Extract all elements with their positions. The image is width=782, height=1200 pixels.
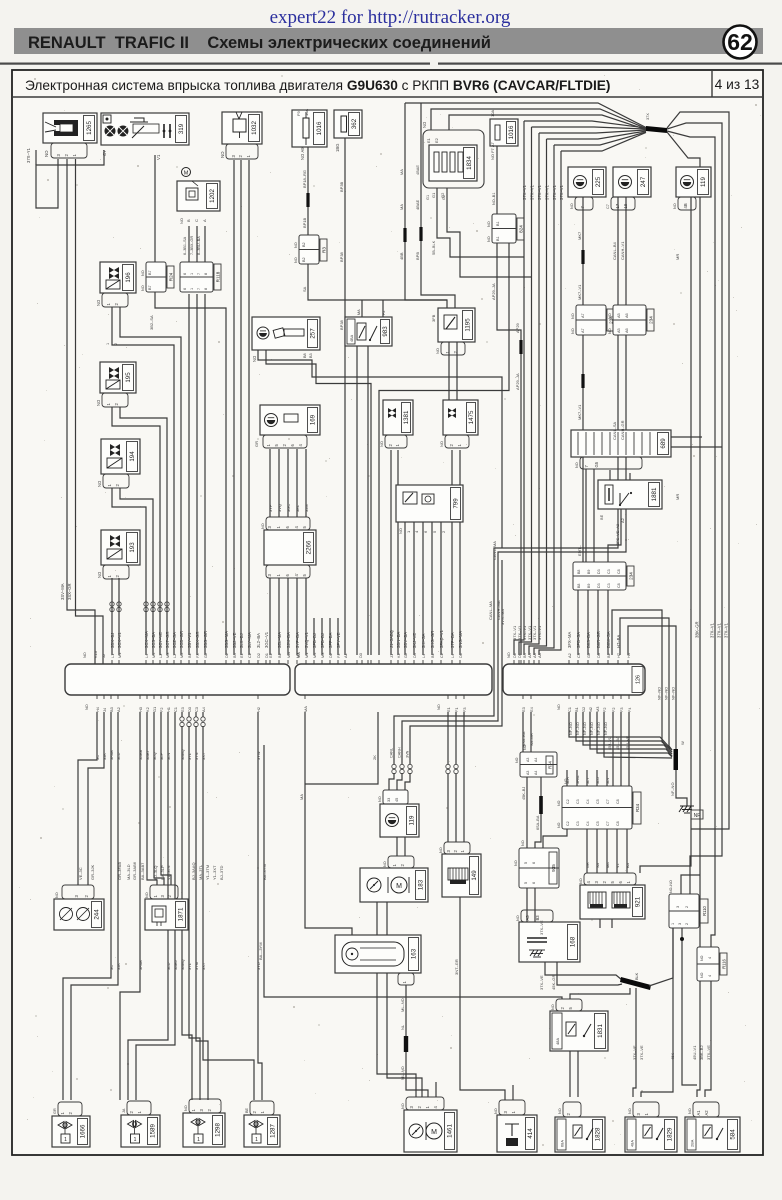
svg-text:6: 6 bbox=[532, 882, 536, 884]
svg-text:6SA–BA: 6SA–BA bbox=[536, 815, 540, 830]
svg-text:AP29–JA: AP29–JA bbox=[515, 373, 520, 390]
svg-text:E1: E1 bbox=[446, 707, 451, 712]
svg-text:NF–NO: NF–NO bbox=[569, 722, 573, 735]
wire left edge 37X-Y1 label stub bbox=[35, 150, 37, 165]
component 163 fuel pump bbox=[335, 935, 421, 973]
svg-text:M3: M3 bbox=[320, 653, 325, 658]
svg-text:4 из 13: 4 из 13 bbox=[715, 77, 760, 92]
svg-text:NF–NO: NF–NO bbox=[657, 687, 662, 700]
svg-text:1834: 1834 bbox=[466, 156, 473, 170]
svg-text:A3: A3 bbox=[537, 653, 542, 658]
svg-text:R34: R34 bbox=[548, 760, 553, 768]
svg-text:K13: K13 bbox=[93, 651, 98, 658]
svg-text:H4: H4 bbox=[626, 652, 631, 658]
svg-text:M: M bbox=[396, 883, 402, 890]
svg-text:3BG–MA: 3BG–MA bbox=[224, 631, 229, 648]
svg-text:B2: B2 bbox=[606, 653, 611, 658]
svg-text:NO: NO bbox=[96, 299, 101, 306]
svg-text:NO: NO bbox=[44, 150, 49, 157]
svg-text:NL: NL bbox=[400, 1024, 405, 1030]
component 1871 bbox=[145, 899, 188, 930]
svg-text:3CY–VE: 3CY–VE bbox=[158, 632, 163, 648]
svg-text:BP18–RG: BP18–RG bbox=[302, 170, 307, 188]
svg-text:C7: C7 bbox=[606, 204, 610, 209]
svg-text:BLK: BLK bbox=[635, 972, 639, 980]
svg-text:414: 414 bbox=[527, 1128, 534, 1139]
svg-text:D2: D2 bbox=[256, 653, 261, 658]
wire 196 pin2 jog to ECU bbox=[120, 307, 181, 655]
svg-text:1: 1 bbox=[106, 343, 110, 345]
splice MK7 bbox=[581, 250, 584, 264]
svg-text:3TM: 3TM bbox=[194, 962, 199, 970]
svg-text:EMT–: EMT– bbox=[577, 545, 582, 556]
component 1032 sensor bbox=[222, 112, 262, 144]
wire 1834 E2 top feed to knot bbox=[449, 115, 646, 130]
component 1475 bbox=[443, 400, 478, 435]
svg-text:F2: F2 bbox=[382, 311, 386, 315]
svg-text:A4: A4 bbox=[534, 758, 538, 762]
svg-text:NF–NO: NF–NO bbox=[590, 722, 594, 735]
wire 1265 pin3 37X stub bbox=[36, 150, 104, 208]
svg-text:3AAQ: 3AAQ bbox=[180, 959, 185, 970]
wire 168 bottom 37X-VE bbox=[545, 962, 622, 980]
svg-text:C7: C7 bbox=[606, 799, 610, 804]
svg-text:ML–NO: ML–NO bbox=[400, 1066, 405, 1080]
svg-text:4BB: 4BB bbox=[399, 252, 404, 260]
bump 193 bbox=[103, 565, 129, 579]
svg-text:45K–GR: 45K–GR bbox=[551, 975, 556, 990]
wire R110 pin1 to 1829 bbox=[641, 928, 673, 1097]
svg-text:6: 6 bbox=[183, 273, 187, 275]
svg-text:4BAE: 4BAE bbox=[415, 165, 420, 175]
svg-text:A7: A7 bbox=[581, 313, 585, 318]
fuse 1016 F9 10A bbox=[292, 110, 327, 147]
svg-text:8: 8 bbox=[204, 273, 208, 275]
svg-text:3VQ–V1: 3VQ–V1 bbox=[304, 631, 309, 648]
svg-text:3XT: 3XT bbox=[201, 752, 206, 760]
wire 257 B3 jog to nest bbox=[266, 347, 371, 655]
svg-text:NO: NO bbox=[514, 860, 518, 866]
wire NF loop 1 from band top bbox=[612, 610, 670, 749]
svg-text:A3: A3 bbox=[525, 915, 530, 921]
svg-text:C8: C8 bbox=[617, 583, 621, 588]
svg-text:37X–V1: 37X–V1 bbox=[559, 184, 564, 200]
svg-text:R110: R110 bbox=[702, 905, 707, 915]
relay box 1834 outer bbox=[423, 130, 484, 188]
wire 163 pin1 ML chain bbox=[405, 985, 407, 1036]
svg-text:2: 2 bbox=[685, 906, 689, 908]
svg-text:C3: C3 bbox=[607, 583, 611, 588]
svg-text:6–3B1–SA: 6–3B1–SA bbox=[183, 236, 187, 255]
svg-text:H1: H1 bbox=[166, 707, 171, 712]
svg-text:A3: A3 bbox=[526, 758, 530, 762]
svg-text:B1: B1 bbox=[187, 653, 192, 658]
svg-text:R116: R116 bbox=[722, 958, 727, 968]
svg-text:MA–3LD: MA–3LD bbox=[126, 864, 131, 880]
svg-text:3AAQ: 3AAQ bbox=[180, 749, 185, 760]
svg-text:1881: 1881 bbox=[651, 487, 658, 501]
svg-text:MA: MA bbox=[606, 862, 610, 868]
svg-text:37X–V1: 37X–V1 bbox=[529, 184, 534, 200]
motor unit 225 bbox=[568, 167, 606, 197]
svg-text:126: 126 bbox=[636, 675, 642, 684]
svg-text:3AB6: 3AB6 bbox=[173, 959, 178, 970]
svg-text:NO: NO bbox=[220, 151, 225, 158]
svg-text:SA: SA bbox=[596, 862, 600, 868]
svg-text:AP29–JA: AP29–JA bbox=[491, 283, 496, 300]
svg-text:GR: GR bbox=[254, 441, 259, 447]
svg-text:E4: E4 bbox=[529, 706, 534, 712]
svg-text:1298: 1298 bbox=[215, 1123, 222, 1137]
wire MA to 1195 pin3 bbox=[405, 242, 447, 300]
svg-text:E1: E1 bbox=[426, 137, 431, 143]
svg-text:BE: BE bbox=[599, 514, 604, 520]
svg-text:3FAC–V1: 3FAC–V1 bbox=[439, 629, 444, 648]
svg-text:10A: 10A bbox=[490, 110, 495, 117]
svg-text:J2: J2 bbox=[101, 654, 106, 658]
svg-text:VE–3C: VE–3C bbox=[78, 867, 83, 880]
svg-text:M1: M1 bbox=[117, 653, 122, 658]
svg-text:M4: M4 bbox=[312, 652, 317, 658]
wire 169 pins to 2266 bbox=[269, 449, 271, 517]
wire 414 second pin stub bbox=[512, 1085, 514, 1100]
svg-text:K2: K2 bbox=[396, 653, 401, 658]
svg-text:NO: NO bbox=[688, 1108, 692, 1114]
svg-text:3FY–VE: 3FY–VE bbox=[336, 632, 341, 648]
svg-text:NO: NO bbox=[608, 328, 612, 334]
svg-text:E2: E2 bbox=[434, 137, 439, 143]
svg-text:3B2–SA: 3B2–SA bbox=[149, 315, 154, 330]
wire R34c bottom to 921 bbox=[586, 829, 588, 873]
svg-text:MA: MA bbox=[286, 652, 291, 658]
svg-text:B4: B4 bbox=[232, 652, 237, 658]
svg-text:E1: E1 bbox=[239, 653, 244, 658]
svg-text:3VQ: 3VQ bbox=[277, 504, 282, 512]
svg-text:A7: A7 bbox=[581, 328, 585, 333]
svg-text:B1: B1 bbox=[496, 236, 500, 241]
svg-text:BP38: BP38 bbox=[339, 319, 344, 330]
svg-text:3BK–BJ: 3BK–BJ bbox=[699, 1046, 704, 1060]
svg-text:62: 62 bbox=[727, 29, 753, 55]
svg-text:MA–3TL: MA–3TL bbox=[198, 864, 203, 880]
wire 824 B1 second to nest bbox=[379, 243, 509, 655]
svg-text:169: 169 bbox=[310, 414, 317, 425]
wire 183 to 1461 bbox=[377, 902, 416, 1097]
ECU band segment A bbox=[65, 664, 290, 695]
wire 689 to 234 col1 bbox=[585, 469, 587, 562]
svg-text:H3: H3 bbox=[138, 707, 143, 712]
wire R34b down to 935 bbox=[526, 777, 528, 848]
svg-text:BPB: BPB bbox=[415, 252, 420, 260]
svg-text:983: 983 bbox=[382, 326, 389, 337]
svg-text:2266: 2266 bbox=[306, 540, 313, 554]
wire NF bar to ground bbox=[676, 770, 687, 806]
svg-text:A5: A5 bbox=[617, 328, 621, 333]
svg-text:BA–3AB7: BA–3AB7 bbox=[140, 862, 145, 880]
wire 983 bottom pin2 to ECU bbox=[367, 346, 369, 655]
svg-text:3FF–BA: 3FF–BA bbox=[328, 632, 333, 648]
wire 1195 to 1475 bbox=[448, 342, 450, 400]
svg-text:6: 6 bbox=[532, 862, 536, 864]
svg-text:CANL: CANL bbox=[390, 748, 394, 758]
svg-text:3FX–MA: 3FX–MA bbox=[567, 632, 572, 648]
svg-text:NF–NO: NF–NO bbox=[671, 687, 676, 700]
wire R23 down then to 1195 bbox=[308, 264, 447, 308]
svg-text:2: 2 bbox=[114, 343, 118, 345]
svg-text:Электронная система впрыска то: Электронная система впрыска топлива двиг… bbox=[25, 78, 611, 93]
wire knot fan right 1 bbox=[667, 112, 729, 829]
svg-text:45U–V1: 45U–V1 bbox=[692, 1045, 697, 1060]
svg-text:C8: C8 bbox=[617, 569, 621, 574]
svg-text:B6S–BA: B6S–BA bbox=[586, 632, 591, 648]
bump 244 bbox=[62, 885, 94, 899]
bump 921 top bbox=[584, 873, 636, 885]
svg-text:7–3BX–GR: 7–3BX–GR bbox=[190, 236, 194, 255]
svg-text:expert22 for http://rutracker.: expert22 for http://rutracker.org bbox=[270, 7, 511, 28]
svg-text:3BG–GR: 3BG–GR bbox=[203, 631, 208, 648]
svg-text:1475: 1475 bbox=[468, 410, 475, 424]
wire NL to 1461 bbox=[406, 1052, 428, 1097]
component 168 filter capacitor bbox=[519, 922, 580, 962]
svg-text:NO: NO bbox=[557, 800, 561, 806]
svg-text:1: 1 bbox=[190, 273, 194, 275]
svg-text:7: 7 bbox=[197, 288, 201, 290]
svg-text:G2: G2 bbox=[442, 195, 446, 200]
svg-text:37X–V1: 37X–V1 bbox=[537, 184, 542, 200]
svg-text:E3: E3 bbox=[180, 707, 185, 712]
component 1265 diesel injection unit bbox=[43, 113, 97, 143]
wire BA-3YM down right to 1831 bbox=[264, 745, 562, 999]
wire 319 V1 to R24 bbox=[154, 155, 156, 262]
EGR valve 1666 bbox=[52, 1116, 90, 1147]
svg-text:3LT: 3LT bbox=[586, 777, 590, 784]
wire fuse 1016 F9 chain bbox=[307, 146, 309, 193]
component 414 bbox=[497, 1115, 537, 1152]
svg-text:A1: A1 bbox=[343, 653, 348, 658]
sheet title divider bbox=[711, 70, 713, 97]
wire MA down to 163 bbox=[305, 712, 352, 935]
svg-text:A4: A4 bbox=[534, 771, 538, 775]
svg-text:1: 1 bbox=[190, 288, 194, 290]
wire R118 col2 to ECU bbox=[196, 294, 198, 655]
svg-text:48A: 48A bbox=[555, 1038, 560, 1045]
svg-text:NO: NO bbox=[575, 462, 579, 468]
bump 195 bbox=[102, 393, 128, 407]
bump 163 bbox=[398, 973, 414, 985]
wire 37X bundle bends to knot bbox=[524, 121, 646, 128]
svg-text:ML–NO: ML–NO bbox=[400, 998, 405, 1012]
switch 584 bbox=[685, 1117, 740, 1152]
ECU band label 126 bbox=[632, 667, 643, 693]
component 1831 switch bbox=[550, 1011, 608, 1051]
svg-text:3EL: 3EL bbox=[295, 504, 300, 512]
svg-text:NF–NO: NF–NO bbox=[664, 687, 669, 700]
svg-text:G1: G1 bbox=[152, 707, 157, 712]
svg-text:R34: R34 bbox=[635, 803, 640, 812]
svg-text:NO: NO bbox=[141, 270, 145, 276]
svg-text:B8: B8 bbox=[303, 353, 307, 358]
ground circle above 1202 bbox=[182, 168, 191, 177]
svg-text:NO–NO: NO–NO bbox=[669, 880, 673, 893]
svg-text:NO–B1: NO–B1 bbox=[492, 193, 496, 205]
svg-text:D3: D3 bbox=[358, 653, 363, 658]
svg-text:3BY–V1: 3BY–V1 bbox=[187, 632, 192, 648]
wire code labels left sensors chain bbox=[26, 147, 201, 600]
splice 4BB bbox=[403, 228, 406, 242]
svg-text:1265: 1265 bbox=[86, 121, 93, 135]
svg-text:F3: F3 bbox=[619, 707, 624, 712]
svg-text:3TX–VE: 3TX–VE bbox=[706, 1045, 711, 1060]
svg-text:C2: C2 bbox=[439, 653, 444, 658]
svg-text:NO: NO bbox=[252, 355, 257, 362]
svg-text:3KJ–VE: 3KJ–VE bbox=[412, 633, 417, 648]
svg-text:B9: B9 bbox=[587, 570, 591, 574]
svg-text:689: 689 bbox=[660, 438, 667, 449]
bump 149 bbox=[444, 842, 470, 854]
sheet title separator bbox=[12, 96, 763, 98]
svg-text:A5: A5 bbox=[617, 313, 621, 318]
svg-text:R118: R118 bbox=[216, 271, 221, 282]
svg-text:C5: C5 bbox=[596, 821, 600, 826]
svg-text:921: 921 bbox=[635, 896, 642, 907]
svg-text:4: 4 bbox=[708, 975, 712, 977]
svg-text:NO: NO bbox=[435, 348, 440, 354]
connector 45 33 bbox=[383, 790, 408, 804]
wire R34c top pin stubs bbox=[566, 770, 568, 786]
wire 225 pin7 down bbox=[582, 197, 584, 250]
wire R116 bottom down to 584 bbox=[705, 981, 711, 1097]
component 319 preheating relay bbox=[101, 113, 189, 145]
svg-text:234: 234 bbox=[649, 316, 654, 324]
wire R118 col1 to ECU bbox=[188, 294, 190, 655]
connector R23 bbox=[299, 235, 319, 264]
svg-text:8: 8 bbox=[204, 288, 208, 290]
svg-text:3LP: 3LP bbox=[159, 753, 164, 760]
svg-text:257: 257 bbox=[310, 328, 317, 339]
splice BP18 bbox=[306, 193, 309, 207]
svg-text:234: 234 bbox=[629, 572, 634, 580]
svg-text:3CX–MA: 3CX–MA bbox=[144, 631, 149, 648]
scan artifact line bbox=[0, 63, 430, 65]
svg-text:8–3BU–BA: 8–3BU–BA bbox=[197, 236, 201, 255]
svg-text:M3: M3 bbox=[165, 653, 170, 658]
wire 921 bottom stubs bbox=[599, 919, 601, 928]
svg-text:CY: CY bbox=[102, 150, 107, 156]
svg-text:MA: MA bbox=[399, 169, 404, 175]
svg-text:NF–NO: NF–NO bbox=[597, 722, 601, 735]
svg-text:A2: A2 bbox=[567, 653, 572, 658]
svg-text:3JK: 3JK bbox=[102, 753, 107, 760]
wire ECU bottom cluster long runs bbox=[120, 712, 140, 1100]
svg-text:3LU: 3LU bbox=[596, 777, 600, 784]
wire 1475 to ECU bbox=[451, 450, 453, 655]
wire 2266 pins to ECU bbox=[269, 578, 271, 655]
wire 1831 to 1828 bbox=[569, 1051, 571, 1097]
svg-text:NF: NF bbox=[694, 813, 701, 819]
svg-text:NO: NO bbox=[439, 847, 443, 853]
injector 193 bbox=[101, 530, 140, 565]
ECU band bottom pin ticks bbox=[97, 695, 629, 699]
node knot 37X bbox=[646, 126, 667, 133]
svg-text:CANH: CANH bbox=[398, 747, 402, 758]
page number circle 62 bbox=[724, 26, 757, 59]
svg-text:B3: B3 bbox=[535, 915, 540, 921]
svg-text:799: 799 bbox=[453, 498, 460, 509]
svg-text:MA: MA bbox=[357, 309, 361, 315]
component 1195 bbox=[438, 308, 475, 342]
svg-text:NO: NO bbox=[608, 313, 612, 319]
svg-text:NO: NO bbox=[494, 1108, 498, 1114]
wire 935 to 168 bbox=[526, 888, 528, 922]
wire 1202 pin C bbox=[196, 226, 198, 262]
svg-text:NO: NO bbox=[571, 328, 575, 334]
svg-text:NO: NO bbox=[628, 1108, 632, 1114]
wire ECU F2F3F4 to R34c bbox=[612, 712, 614, 786]
svg-text:NO: NO bbox=[379, 441, 384, 447]
bump 225 bbox=[575, 197, 593, 210]
gray title band bbox=[14, 28, 763, 54]
svg-text:NO: NO bbox=[557, 822, 561, 828]
svg-text:NO: NO bbox=[398, 528, 403, 534]
svg-text:NO: NO bbox=[516, 915, 520, 921]
svg-text:GR–3JK: GR–3JK bbox=[90, 865, 95, 880]
svg-text:B6M–SA: B6M–SA bbox=[606, 631, 611, 648]
svg-text:4B: 4B bbox=[683, 203, 688, 208]
svg-text:C3: C3 bbox=[607, 569, 611, 574]
svg-text:V1: V1 bbox=[616, 863, 620, 868]
ground label NF box bbox=[691, 810, 703, 819]
svg-text:MA: MA bbox=[303, 706, 308, 712]
svg-text:3FB–BJ: 3FB–BJ bbox=[312, 633, 317, 648]
wire NF stairs to shield bar bbox=[569, 712, 672, 750]
svg-text:196: 196 bbox=[125, 272, 132, 283]
relay box 983 bbox=[345, 317, 392, 346]
svg-text:F3: F3 bbox=[462, 707, 467, 712]
svg-text:F1: F1 bbox=[454, 707, 459, 712]
svg-text:NO: NO bbox=[570, 203, 574, 209]
svg-text:A4: A4 bbox=[201, 706, 206, 712]
svg-text:NO: NO bbox=[184, 1105, 188, 1111]
bump 1871 bbox=[150, 885, 178, 899]
svg-text:3: 3 bbox=[678, 923, 682, 925]
svg-text:NO: NO bbox=[436, 704, 441, 710]
svg-text:5: 5 bbox=[524, 882, 528, 884]
svg-text:NO: NO bbox=[439, 441, 444, 447]
svg-text:3CS–BA: 3CS–BA bbox=[151, 632, 156, 648]
svg-text:BA–3LP: BA–3LP bbox=[160, 865, 165, 880]
svg-text:NO F7 A7: NO F7 A7 bbox=[490, 141, 495, 160]
svg-text:3HG–GR: 3HG–GR bbox=[430, 631, 435, 648]
wire H2 down bbox=[258, 712, 262, 1100]
connector 824 B1 bbox=[492, 214, 516, 243]
svg-text:3YP: 3YP bbox=[268, 504, 273, 512]
svg-text:NO: NO bbox=[571, 313, 575, 319]
svg-text:NF–NO: NF–NO bbox=[604, 722, 608, 735]
svg-text:BA–3YM: BA–3YM bbox=[262, 864, 267, 880]
svg-text:68A: 68A bbox=[560, 1140, 565, 1147]
svg-text:37X: 37X bbox=[646, 113, 650, 120]
wire 983 top stubs bbox=[361, 300, 363, 317]
valve 1287 bbox=[244, 1115, 280, 1147]
wire code labels above ECU band right bbox=[389, 629, 621, 648]
svg-text:D3: D3 bbox=[597, 569, 601, 574]
svg-text:3VN: 3VN bbox=[406, 750, 410, 758]
svg-text:3L2–BA: 3L2–BA bbox=[256, 633, 261, 648]
svg-text:A2: A2 bbox=[116, 707, 121, 712]
svg-text:E2: E2 bbox=[268, 653, 273, 658]
svg-text:NO A9: NO A9 bbox=[300, 147, 305, 160]
svg-text:NO: NO bbox=[261, 523, 265, 529]
